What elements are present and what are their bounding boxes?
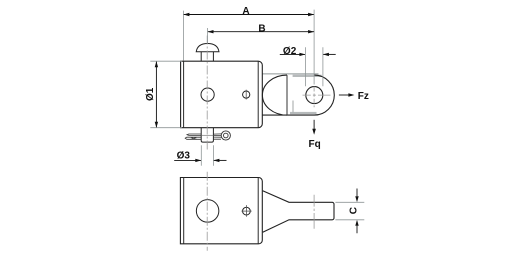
witness lines C <box>335 201 364 203</box>
witness line A left <box>182 11 184 61</box>
taper neck and shaft <box>263 191 334 233</box>
big bore circle <box>196 200 219 223</box>
svg-text:B: B <box>258 23 265 34</box>
witness line B left <box>207 28 209 43</box>
witness line A/B right (to eye centre) <box>313 10 315 85</box>
cotter pin edge seen through shaft <box>201 134 213 136</box>
eye hole diameter 2 <box>306 87 323 104</box>
dimension C <box>356 189 358 197</box>
svg-text:Fq: Fq <box>308 139 320 150</box>
dimension D1 (vertical) <box>155 61 157 128</box>
shaft vertical centerline <box>313 195 315 229</box>
body vertical centerline <box>206 172 208 251</box>
body outline side view <box>180 178 262 244</box>
svg-text:Ø1: Ø1 <box>145 87 156 101</box>
egg flat face <box>286 75 288 115</box>
body inner edge line right <box>257 178 259 244</box>
gray band bottom (mating eye edge) <box>290 112 317 114</box>
clevis body outline <box>181 61 263 128</box>
eye hole vertical centerline <box>313 87 315 108</box>
cotter pin twist detail <box>191 137 197 139</box>
body hole (pin bore) <box>201 88 214 101</box>
dimension D2 <box>280 53 306 55</box>
force Fz arrow <box>339 94 349 96</box>
svg-text:Ø2: Ø2 <box>283 46 297 57</box>
gray vertical edge (mating eye left edge) <box>292 101 294 114</box>
small hole with crosshair <box>243 207 251 215</box>
eye top outline (gray thin) <box>262 73 318 75</box>
cotter pin ring <box>221 131 230 140</box>
body inner edge line left <box>183 61 185 128</box>
svg-text:A: A <box>242 6 249 17</box>
dimension D3 <box>174 159 201 161</box>
eye piece outline (tongue with eye) <box>262 75 334 115</box>
svg-text:C: C <box>348 207 359 214</box>
pin centerline <box>206 36 208 152</box>
witness lines D1 <box>150 60 182 62</box>
svg-text:Fz: Fz <box>358 91 369 102</box>
cotter pin top prong <box>187 134 201 135</box>
pin neck <box>200 52 202 61</box>
dimension B line <box>208 31 315 33</box>
witness lines D3 <box>200 145 202 165</box>
body inner edge line left <box>183 178 185 244</box>
gray band top (mating eye edge) <box>293 75 322 77</box>
small hole vertical tick <box>245 90 247 100</box>
egg shaped boss <box>262 75 287 115</box>
eye hole horizontal centerline <box>303 94 331 96</box>
force Fq arrow <box>313 120 315 129</box>
body inner edge line right <box>257 61 259 128</box>
body small hole <box>243 91 250 98</box>
dimension A line <box>183 14 314 16</box>
svg-text:Ø3: Ø3 <box>177 151 191 162</box>
pin head dome <box>196 44 219 52</box>
cotter pin bottom prong <box>185 137 201 139</box>
pin shaft below body <box>201 128 213 142</box>
witness lines D2 <box>304 47 306 86</box>
